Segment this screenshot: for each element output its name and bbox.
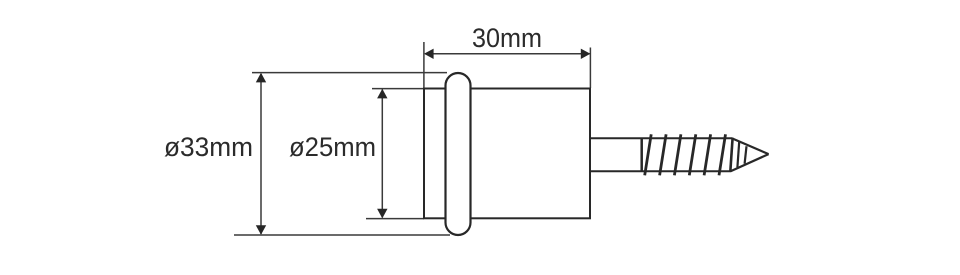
screw point cone bottom edge — [731, 154, 769, 171]
cone thread line 1 — [737, 142, 739, 168]
thread crest 4 — [689, 134, 696, 175]
thread start vertical — [640, 138, 643, 172]
thread end line — [730, 138, 732, 172]
screw shank top line — [591, 137, 732, 139]
arrowhead 30mm right — [581, 49, 591, 59]
arrowhead ø33 top — [256, 73, 266, 83]
extension line left of 30mm dimension — [423, 42, 425, 88]
extension line bottom of ø33 dimension — [234, 234, 450, 236]
dimension line ø33 — [260, 74, 262, 234]
cone thread line 2 — [745, 146, 747, 163]
main cylinder body (30mm long) — [455, 89, 590, 219]
arrowhead ø25 top — [377, 89, 387, 99]
svg-text:ø33mm: ø33mm — [164, 132, 253, 162]
screw point cone top edge — [732, 138, 769, 154]
thread crest 5 — [704, 134, 711, 175]
svg-text:30mm: 30mm — [472, 23, 542, 53]
arrowhead ø33 bottom — [256, 225, 266, 235]
screw shank bottom line — [591, 170, 731, 172]
thread crest 3 — [674, 134, 681, 175]
thread crest 1 — [645, 134, 652, 175]
arrowhead 30mm left — [424, 49, 434, 59]
extension line bottom of ø25 dimension — [366, 218, 424, 220]
svg-text:ø25mm: ø25mm — [289, 132, 376, 162]
extension line top of ø25 dimension — [372, 88, 424, 90]
rear collar section (ø25 neck, left of flange) — [424, 89, 458, 219]
flange disc (ø33 capsule) — [446, 73, 471, 235]
thread crest 2 — [660, 134, 667, 175]
thread crest 6 — [719, 134, 726, 175]
arrowhead ø25 bottom — [377, 209, 387, 219]
dimension line 30mm — [425, 53, 590, 55]
extension line right of 30mm dimension — [589, 48, 591, 89]
dimension line ø25 — [381, 90, 383, 218]
extension line top of ø33 dimension — [252, 72, 447, 74]
